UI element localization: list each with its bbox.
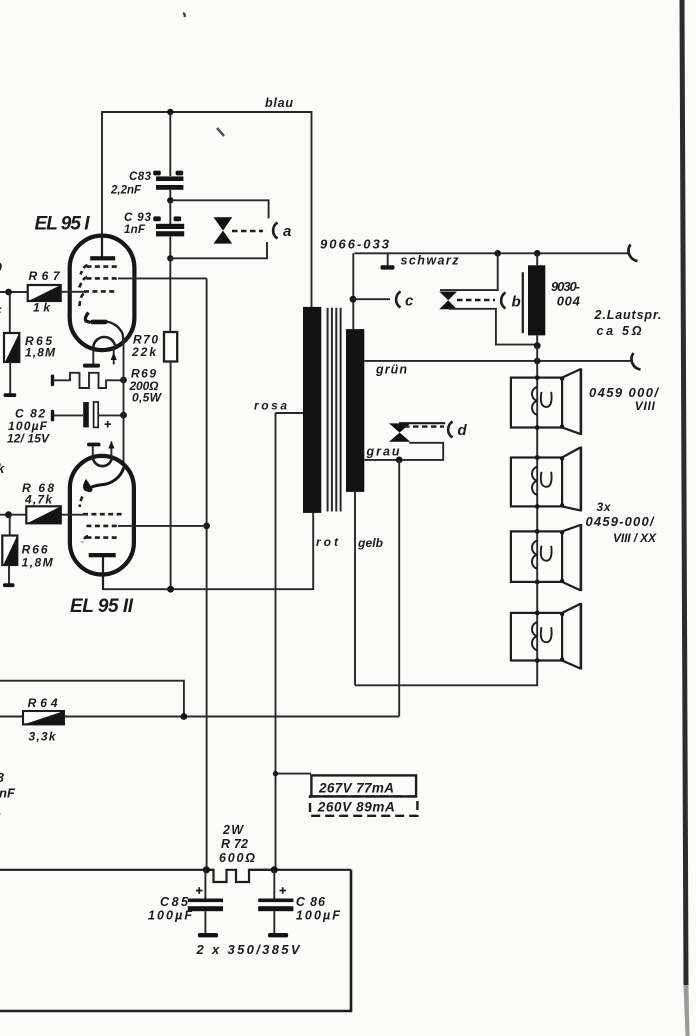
wire R65 to ground	[9, 362, 11, 394]
wire R64 feedback top bypass	[0, 681, 184, 717]
psu box right edge	[0, 870, 351, 1011]
wire blau top net	[102, 112, 312, 307]
svg-text:VIII: VIII	[635, 399, 656, 413]
svg-text:100µF: 100µF	[148, 909, 192, 923]
page border right edge	[680, 0, 689, 985]
wire U1 g2 to screen bus	[118, 277, 207, 279]
tube U2 heater stub chassis	[87, 443, 100, 459]
svg-text:0,5W: 0,5W	[132, 391, 163, 405]
tube U1 grid g1	[84, 290, 117, 293]
svg-text:grün: grün	[375, 363, 407, 377]
node choke bottom	[534, 342, 541, 349]
loudspeaker LS2	[511, 447, 582, 512]
tube U1 grid g2	[87, 277, 121, 280]
tube U1 heater arc	[93, 337, 115, 348]
tube U2 g1 curl dashes	[80, 497, 83, 508]
link b probe arrow	[439, 292, 495, 310]
svg-text:1,8M: 1,8M	[25, 346, 56, 360]
node R68 R66	[5, 511, 12, 518]
stray mark diagonal	[217, 128, 224, 136]
loudspeaker LS4	[511, 603, 582, 670]
wire input to R67	[0, 291, 28, 293]
transformer T1 primary winding	[303, 307, 321, 513]
svg-text:grau: grau	[366, 445, 400, 459]
transformer T1 secondary top lead	[352, 253, 354, 329]
node anode wire R70	[167, 586, 174, 593]
svg-text:1k: 1k	[33, 301, 51, 315]
svg-text:gelb: gelb	[357, 536, 383, 550]
node R67 R65	[5, 289, 12, 296]
resistor R69 meander	[51, 373, 124, 388]
svg-text:b: b	[512, 294, 521, 311]
resistor R66	[2, 536, 17, 566]
resistor R68	[26, 506, 61, 523]
svg-text:schwarz: schwarz	[401, 254, 460, 268]
svg-text:2,2nF: 2,2nF	[110, 185, 142, 197]
capacitor C83	[153, 171, 183, 190]
wire grau vertical	[398, 460, 400, 717]
wire node to R65	[9, 292, 11, 333]
svg-text:,8: ,8	[0, 770, 5, 785]
capacitor C93	[153, 200, 184, 258]
svg-text:C85: C85	[160, 895, 189, 909]
svg-text:600Ω: 600Ω	[219, 851, 255, 865]
svg-text:22k: 22k	[131, 345, 157, 359]
link a socket	[273, 223, 277, 239]
svg-text:C 93: C 93	[124, 212, 152, 224]
wire schwarz net	[354, 252, 630, 254]
node schwarz choke	[534, 250, 541, 257]
resistor R70	[164, 258, 177, 589]
resistor R64	[23, 711, 64, 724]
voltage box 260V 89mA dashed	[310, 796, 417, 815]
tube U2 grid g3	[87, 536, 121, 539]
tube U2 heater arrow	[108, 441, 114, 458]
svg-text:VIII / XX: VIII / XX	[613, 531, 657, 545]
svg-text:R64: R64	[28, 696, 58, 710]
capacitor C85	[188, 870, 223, 938]
svg-text:R67: R67	[29, 269, 61, 283]
ground R66	[3, 583, 15, 587]
svg-text:rosa: rosa	[254, 399, 287, 413]
tube U1 grid g3 curl	[81, 265, 88, 275]
tube U1 cathode	[85, 313, 123, 342]
loudspeaker LS1	[511, 368, 582, 435]
svg-text:12/ 15V: 12/ 15V	[7, 432, 50, 446]
tube U2 anode plate	[89, 553, 116, 557]
svg-text:4,7k: 4,7k	[24, 493, 53, 507]
tube U2 anode lead	[102, 557, 104, 589]
tube U2 heater arc	[93, 457, 112, 467]
svg-text:k: k	[0, 461, 5, 476]
svg-text:2 x 350/385V: 2 x 350/385V	[196, 942, 301, 957]
node top wire / C83	[167, 109, 173, 115]
wire speakers return bottom	[355, 682, 537, 685]
node cathode R69	[120, 377, 127, 384]
node grau	[396, 457, 403, 464]
link a probe arrow	[214, 217, 264, 243]
svg-text:1nF: 1nF	[124, 224, 146, 236]
svg-text:a: a	[283, 223, 291, 240]
wire supply rail	[0, 869, 351, 871]
tube U1 anode plate	[90, 256, 115, 260]
connector mid right	[632, 353, 641, 370]
link b socket	[501, 293, 505, 309]
node between C83 C93	[167, 197, 173, 203]
node gruen speaker line	[534, 358, 541, 365]
loudspeaker LS3	[511, 524, 582, 591]
wire U2 g1 to R68	[61, 514, 87, 516]
node R64 bypass	[181, 713, 188, 720]
svg-text:,: ,	[0, 803, 2, 818]
svg-text:3,3k: 3,3k	[29, 730, 57, 744]
tube U1 EL95 I envelope	[70, 236, 135, 351]
svg-text:R 72: R 72	[221, 837, 248, 851]
choke leads	[536, 253, 538, 345]
wire U2 anode to transformer	[102, 512, 313, 589]
wire C83 to node	[169, 190, 171, 200]
svg-text:9066-033: 9066-033	[320, 237, 390, 252]
svg-text:2.Lautspr.: 2.Lautspr.	[594, 308, 662, 322]
tube U2 grid g3 curl	[82, 536, 88, 543]
node screen bus U2 g2	[203, 523, 210, 530]
wire screen bus vertical	[206, 278, 208, 869]
svg-text:C83: C83	[129, 171, 152, 183]
svg-text:rot: rot	[316, 535, 339, 549]
tube U1 heater stub chassis	[83, 348, 100, 368]
wire cathode bus	[123, 338, 125, 470]
node voltage box tap	[273, 771, 278, 776]
choke 9030-004 core line	[522, 272, 524, 333]
link d socket	[448, 422, 452, 438]
wire grau tap	[364, 443, 443, 460]
connector top right	[629, 245, 638, 262]
ground R65	[4, 393, 17, 397]
svg-text:260V 89mA: 260V 89mA	[317, 800, 395, 815]
wire speaker chain	[536, 361, 538, 683]
test point c socket	[396, 292, 400, 308]
svg-text:004: 004	[557, 294, 581, 309]
node C86	[271, 866, 278, 873]
wire speaker chain from choke	[536, 346, 538, 361]
svg-text:EL 95 I: EL 95 I	[35, 214, 91, 235]
wire C83 branch	[169, 112, 171, 176]
wire R64 line	[0, 716, 399, 718]
tube U2 grid g1	[83, 513, 124, 516]
svg-text:blau: blau	[265, 96, 293, 110]
resistor R72 meander	[206, 870, 274, 882]
test point c node	[350, 296, 357, 303]
capacitor C82	[51, 402, 124, 428]
transformer T1 secondary bottom lead gelb	[354, 492, 356, 685]
svg-text:C 86: C 86	[296, 895, 326, 909]
stray mark top	[183, 13, 185, 17]
link d probe arrow	[389, 423, 445, 442]
svg-text:0459-000/: 0459-000/	[586, 514, 655, 529]
svg-text:9030-: 9030-	[551, 279, 580, 294]
svg-text:100µF: 100µF	[296, 909, 340, 923]
transformer T1 secondary winding	[346, 329, 364, 492]
resistor R65	[4, 333, 19, 362]
tube U2 cathode	[84, 468, 124, 492]
tube U1 grid g1 curl	[79, 294, 83, 308]
wire gruen net	[364, 360, 633, 362]
svg-text:ca 5Ω: ca 5Ω	[597, 324, 642, 338]
svg-text:2 W: 2 W	[222, 823, 244, 837]
resistor R67	[28, 285, 61, 301]
wire to voltage box	[276, 773, 312, 775]
svg-text:nF: nF	[0, 786, 16, 801]
link a upper stub	[170, 200, 268, 218]
node C85	[203, 866, 210, 873]
tube U1 heater arrow	[111, 348, 117, 365]
node below C93	[167, 255, 173, 261]
svg-text:F: F	[0, 305, 2, 319]
tube U1 grid g2 curl	[79, 277, 87, 288]
svg-text:d: d	[458, 422, 468, 439]
tube U2 EL95 II envelope	[70, 456, 134, 575]
node schwarz b-link	[494, 250, 501, 257]
tube U1 grid g3	[87, 265, 121, 268]
svg-text:R66: R66	[22, 543, 48, 557]
choke 9030-004 winding	[528, 265, 545, 335]
svg-text:267V 77mA: 267V 77mA	[318, 781, 394, 796]
capacitor C86	[258, 870, 293, 938]
svg-text:1,8M: 1,8M	[22, 556, 54, 570]
wire rosa tap	[276, 412, 304, 414]
svg-text:3x: 3x	[597, 500, 612, 514]
link b upper stub	[440, 253, 498, 290]
wire node to R66	[9, 515, 11, 536]
voltage box 267V 77mA	[311, 775, 416, 796]
schwarz chassis stub	[381, 253, 395, 269]
transformer T1 core	[328, 308, 341, 512]
link a lower stub	[170, 242, 267, 258]
svg-text:EL 95 II: EL 95 II	[70, 596, 134, 617]
link b lower stub	[449, 309, 537, 345]
tube U2 grid g2	[87, 525, 121, 528]
test point c stub	[353, 298, 390, 300]
wire U1 g1 to R67	[61, 291, 87, 293]
wire R66 to ground	[8, 565, 10, 584]
node cathode C82	[120, 412, 127, 419]
wire U2 g2 to screen bus	[118, 525, 207, 527]
svg-text:0459 000/: 0459 000/	[589, 385, 659, 400]
wire input to R68	[0, 514, 26, 516]
svg-text:9: 9	[0, 259, 2, 275]
wire rosa vertical	[275, 413, 277, 870]
tube U1 anode lead	[101, 234, 103, 257]
svg-text:c: c	[405, 293, 414, 310]
